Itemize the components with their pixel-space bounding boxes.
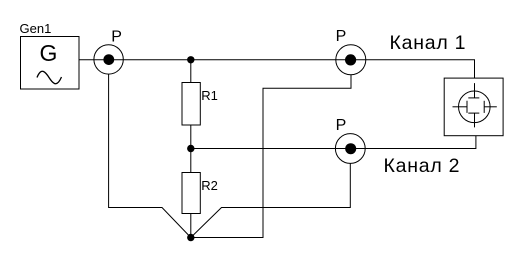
- junction node middle (R1/R2): [187, 145, 194, 152]
- wire: R1 bottom to middle node: [190, 125, 192, 149]
- wire: probe P3 ground return: [191, 75, 351, 238]
- svg-text:Канал 2: Канал 2: [384, 155, 461, 177]
- svg-text:R2: R2: [201, 178, 218, 193]
- oscilloscope tick left: [453, 106, 468, 108]
- wire: probe P2 ground return: [191, 163, 350, 237]
- oscilloscope tick right: [484, 106, 497, 108]
- oscilloscope box: [444, 78, 503, 136]
- oscilloscope top deflection plate: [468, 97, 479, 99]
- oscilloscope tick bottom: [474, 113, 476, 127]
- wire: R2 bottom to ground node: [190, 214, 192, 238]
- resistor R1: [182, 83, 200, 126]
- probe P2 center dot: [345, 143, 356, 154]
- oscilloscope right deflection plate: [483, 101, 485, 113]
- svg-text:Канал 1: Канал 1: [390, 32, 467, 54]
- svg-text:P: P: [336, 117, 347, 134]
- svg-text:G: G: [40, 40, 58, 66]
- generator sine symbol: [37, 71, 62, 83]
- svg-text:P: P: [111, 29, 122, 46]
- probe P3 circle: [336, 45, 366, 75]
- generator Gen1 box: [21, 37, 80, 90]
- oscilloscope bottom deflection plate: [468, 112, 479, 114]
- probe P3 center dot: [345, 54, 356, 65]
- oscilloscope tick top: [474, 83, 476, 98]
- junction node ground: [187, 234, 194, 241]
- svg-text:P: P: [336, 28, 347, 45]
- oscilloscope left deflection plate: [466, 101, 468, 113]
- probe P1 circle: [94, 45, 123, 74]
- oscilloscope CRT circle: [459, 91, 491, 123]
- wire: probe P1 ground return: [109, 74, 191, 238]
- svg-text:R1: R1: [201, 88, 218, 103]
- wire: vertical divider string top to R1: [190, 60, 192, 83]
- wire: middle node to R2 top: [190, 149, 192, 173]
- svg-text:Gen1: Gen1: [20, 21, 52, 36]
- wire: middle horizontal from R1/R2 node to scope channel 2: [191, 136, 476, 149]
- resistor R2: [182, 173, 200, 214]
- wire: generator output to scope channel 1 (top horizontal): [79, 60, 475, 78]
- probe P1 center dot: [103, 54, 114, 65]
- probe P2 circle: [335, 134, 365, 164]
- junction node top (gen to R1): [187, 56, 194, 63]
